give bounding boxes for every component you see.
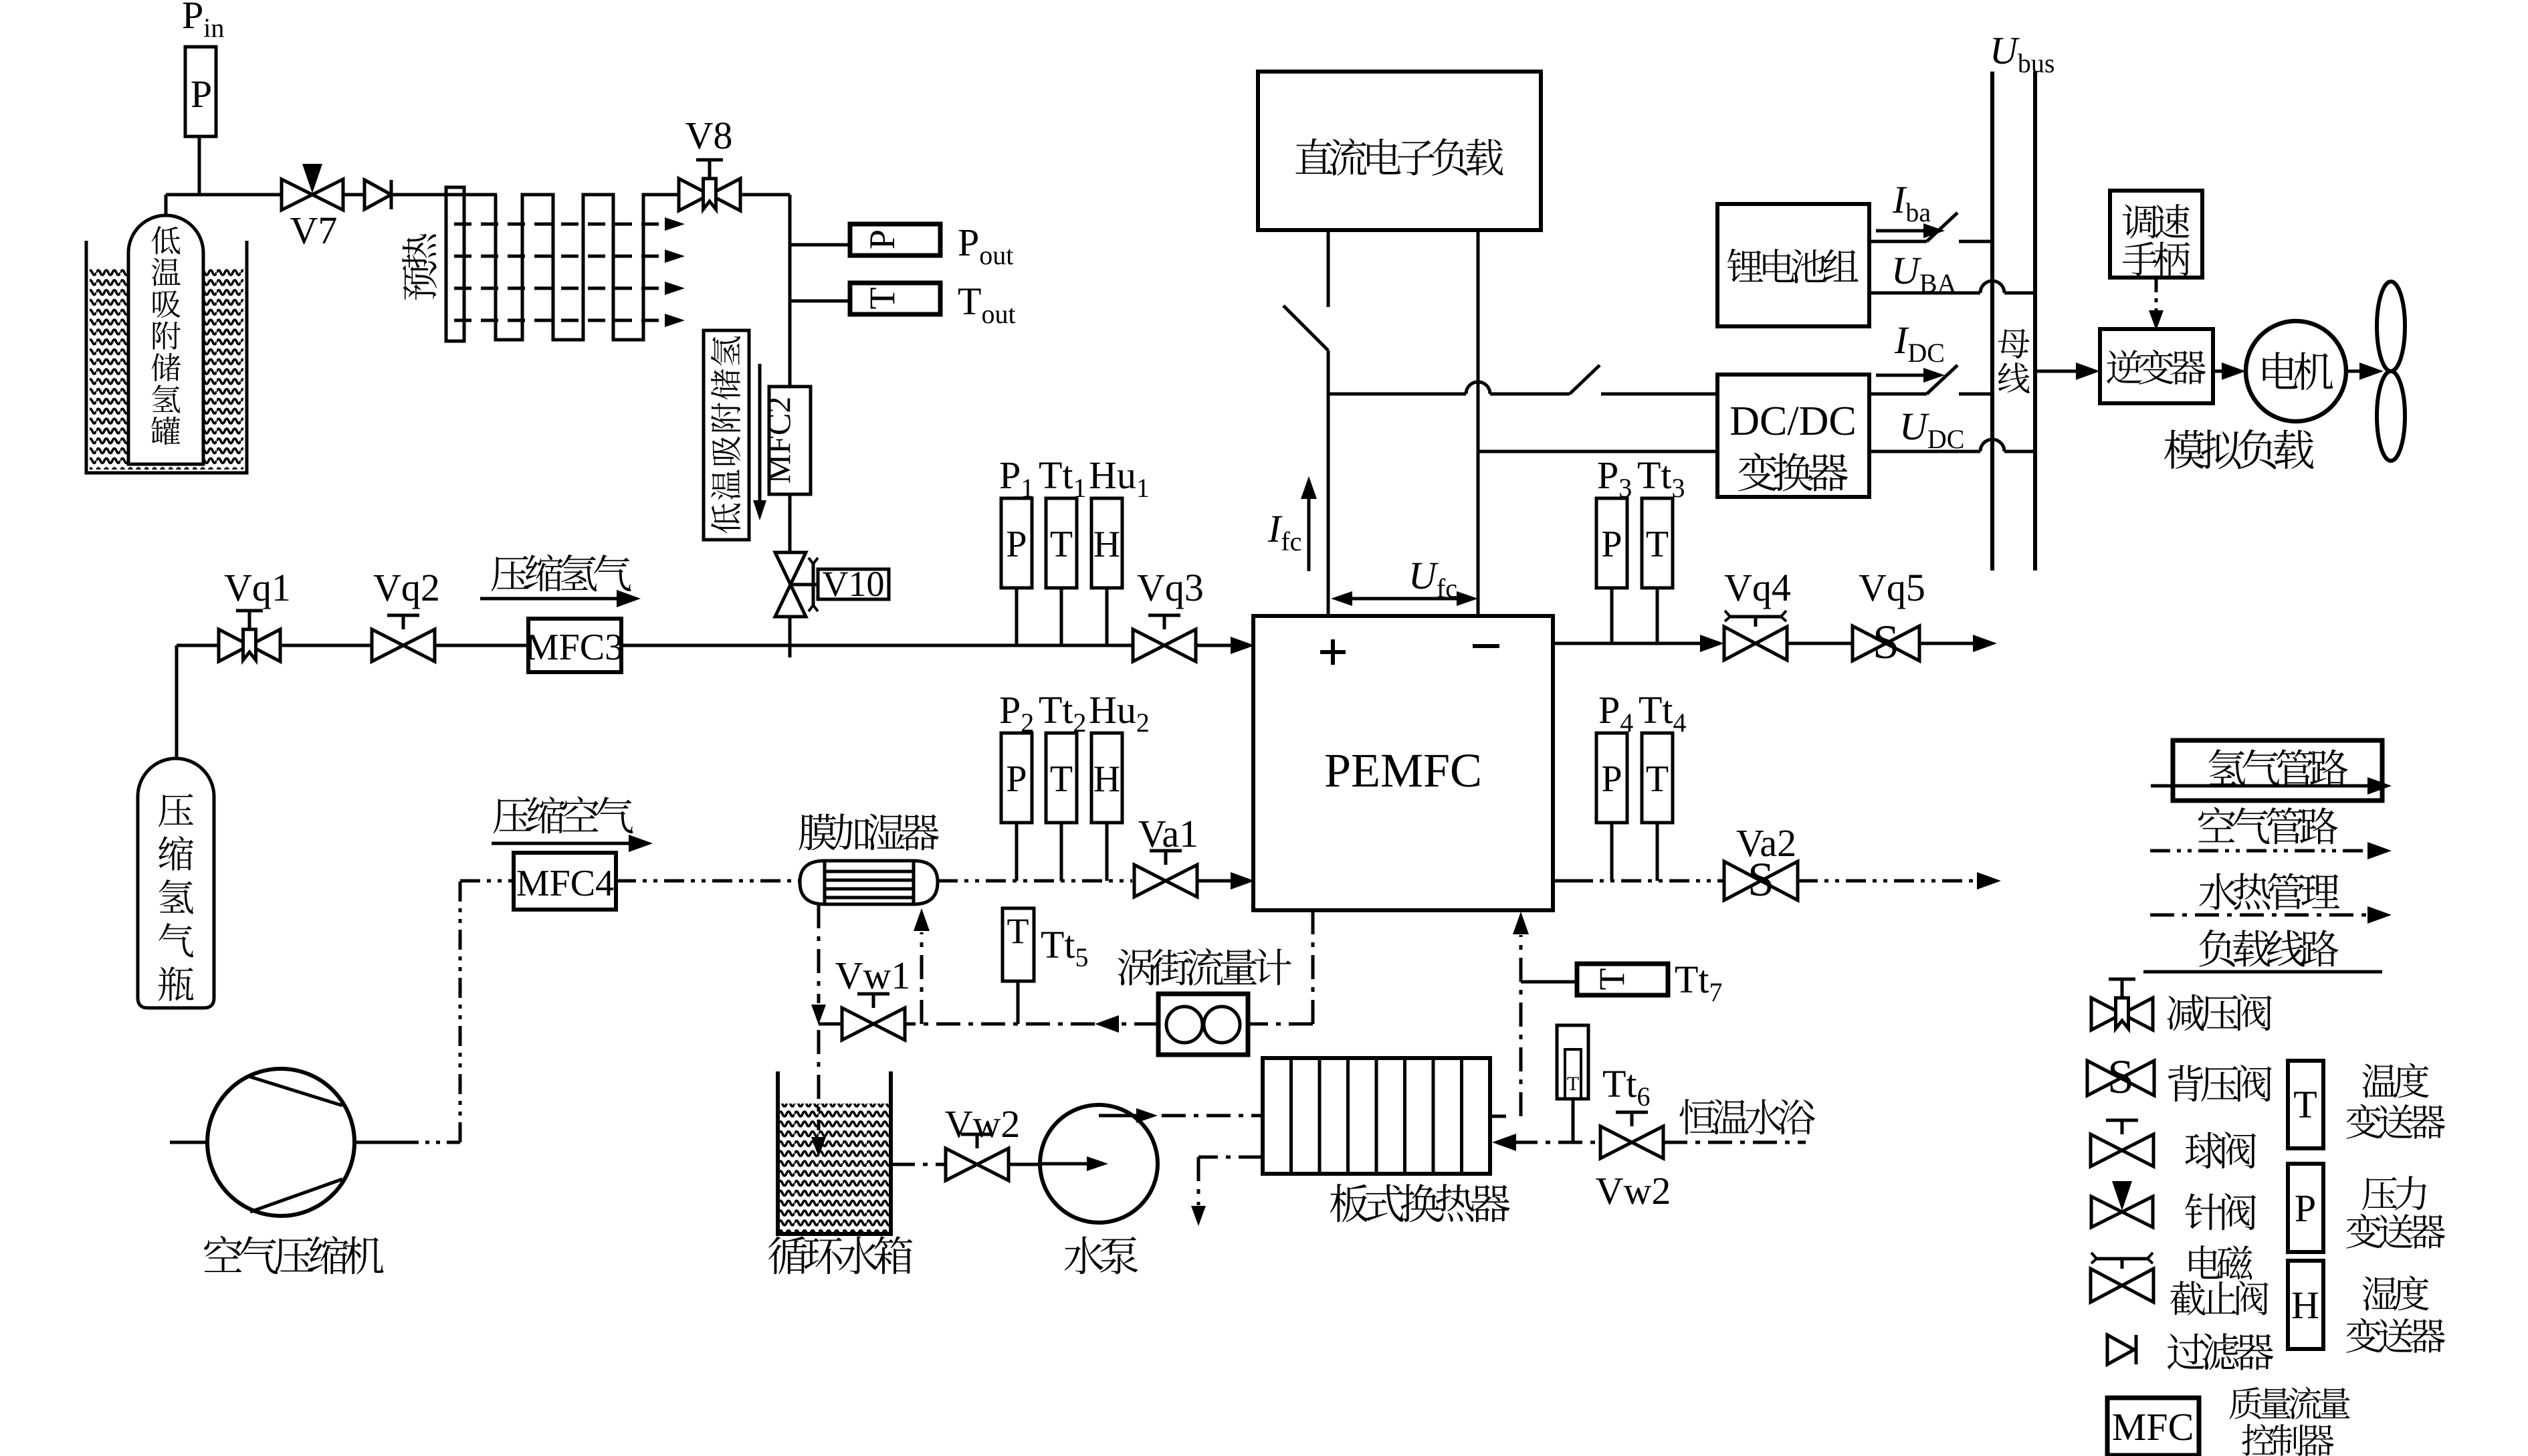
- sensor P3: [1596, 498, 1627, 588]
- valve Vq4 solenoid: [1724, 611, 1787, 660]
- valve Vq5 backpressure: [1853, 615, 1919, 669]
- wire DC load right lead: [1477, 230, 1480, 616]
- label V7: [290, 209, 338, 252]
- valve V7 needle: [282, 164, 343, 210]
- label plate HX: [1330, 1184, 1510, 1222]
- valve V10 solenoid: [775, 552, 818, 617]
- legend water line: [2150, 906, 2392, 924]
- wire Vq2-MFC3: [434, 644, 528, 647]
- label Tt6: [1602, 1062, 1651, 1112]
- wire V8 right: [740, 195, 790, 387]
- preheater coil: [496, 195, 678, 340]
- sensor Tout: [850, 283, 940, 314]
- wire tank to Vw2: [891, 1163, 946, 1166]
- wire flowmeter to Vw1: [905, 1015, 1158, 1033]
- wire left lead down: [1327, 350, 1330, 616]
- sensor Hu2: [1091, 733, 1122, 823]
- wire MFC3-Vq3: [621, 644, 1134, 647]
- svg-text:P: P: [1601, 758, 1622, 800]
- svg-text:Vq4: Vq4: [1724, 566, 1791, 609]
- controller MFC2: [760, 387, 811, 494]
- wire battery return: [1869, 281, 2035, 293]
- pressure sensor Pin: [185, 47, 216, 136]
- wire bus link: [1328, 382, 1570, 394]
- svg-text:V10: V10: [823, 564, 885, 604]
- label simulated load: [2164, 429, 2313, 470]
- bus bar left: [1990, 72, 1994, 570]
- svg-text:Vq2: Vq2: [373, 566, 440, 609]
- wire Kba to bus: [1959, 240, 1992, 243]
- wire bus to inverter: [2035, 362, 2100, 380]
- label Vq4: [1724, 566, 1791, 609]
- svg-text:P: P: [191, 72, 212, 116]
- label thermostat bath: [1680, 1099, 1816, 1134]
- hydrogen cylinder: [138, 758, 214, 1008]
- wire DCDC return: [1869, 439, 2035, 451]
- sensor P4: [1596, 733, 1627, 823]
- wire Tt6 stem: [1572, 1099, 1575, 1142]
- switch K1: [1283, 306, 1328, 350]
- legend P sensor: [2288, 1164, 2323, 1252]
- wire Hu2 stem: [1105, 823, 1109, 881]
- wire Vq4-Vq5: [1787, 642, 1853, 645]
- label Vq5: [1859, 566, 1925, 609]
- label Vw1: [835, 954, 911, 997]
- svg-text:T: T: [1567, 1073, 1579, 1095]
- vortex flowmeter: [1158, 994, 1248, 1055]
- label cryo-adsorption storage: [704, 330, 749, 540]
- sensor Pout: [850, 224, 940, 255]
- wire Va1 to PEMFC: [1197, 872, 1255, 890]
- svg-text:PEMFC: PEMFC: [1324, 744, 1482, 797]
- wire P2 stem: [1015, 823, 1019, 881]
- water bath: [86, 241, 247, 473]
- svg-text:P: P: [1006, 524, 1027, 565]
- flow arrow down: [753, 364, 766, 520]
- legend filter: [2107, 1335, 2136, 1364]
- sensor Tt4: [1642, 733, 1673, 823]
- svg-text:T: T: [1592, 968, 1632, 991]
- propeller: [2377, 282, 2405, 461]
- label MFC: [2230, 1387, 2350, 1456]
- valve Va1 ball: [1134, 851, 1197, 897]
- label UDC: [1899, 405, 1964, 454]
- wire Tt3 stem: [1656, 588, 1659, 643]
- svg-text:H: H: [1093, 524, 1120, 565]
- wire Hu1 stem: [1105, 588, 1109, 645]
- label Iba: [1892, 178, 1931, 227]
- wire compressor inlet: [170, 1141, 207, 1144]
- wire DC load left lead: [1327, 230, 1330, 307]
- svg-text:Va1: Va1: [1138, 812, 1198, 855]
- valve Vw2b ball: [1600, 1112, 1663, 1158]
- svg-text:P: P: [1006, 758, 1027, 800]
- label water pump: [1065, 1237, 1138, 1275]
- motor M: [2246, 321, 2346, 421]
- label Ubus: [1990, 29, 2055, 78]
- preheat flow arrow 2: [454, 249, 685, 263]
- label busbar: [1998, 329, 2030, 393]
- label filter: [2168, 1333, 2274, 1370]
- svg-text:DC/DC: DC/DC: [1729, 399, 1856, 444]
- label ball valve: [2185, 1132, 2256, 1168]
- preheat flow arrow 4: [454, 314, 685, 327]
- svg-text:V7: V7: [290, 209, 338, 252]
- wire Vq3 to PEMFC: [1195, 637, 1255, 654]
- svg-text:Vw1: Vw1: [835, 954, 911, 997]
- sensor Tt2: [1046, 733, 1077, 823]
- svg-text:T: T: [1050, 758, 1073, 800]
- switch Kba: [1927, 213, 1958, 241]
- wire P1 stem: [1015, 588, 1019, 645]
- legend reducing valve: [2091, 979, 2153, 1030]
- water pump: [1040, 1105, 1158, 1223]
- controller MFC3: [526, 619, 623, 672]
- wire air vent: [1798, 872, 2001, 890]
- svg-text:H: H: [1093, 758, 1120, 800]
- wire DCDC out: [1869, 393, 1927, 396]
- valve Vq1 reducing: [219, 611, 280, 661]
- legend load line: [2143, 970, 2382, 974]
- label Tt4: [1639, 688, 1687, 738]
- wire Tt1 stem: [1060, 588, 1063, 645]
- filter F1: [364, 180, 391, 209]
- label P3: [1597, 453, 1632, 503]
- fuel cell PEMFC: [1253, 616, 1553, 910]
- wire Vq1-Vq2: [280, 644, 373, 647]
- wire Vw2 to pump: [1009, 1163, 1041, 1166]
- current arrow IDC: [1876, 368, 1945, 383]
- svg-text:T: T: [862, 288, 902, 310]
- legend load line label: [2199, 930, 2339, 967]
- circulating tank: [778, 1071, 891, 1234]
- legend needle valve: [2091, 1181, 2153, 1227]
- legend air line label: [2198, 807, 2338, 845]
- label circulating tank: [768, 1236, 912, 1274]
- svg-text:T: T: [2293, 1083, 2317, 1126]
- svg-text:Vw2: Vw2: [1596, 1169, 1671, 1213]
- label T sensor: [2346, 1063, 2445, 1139]
- label air compressor: [204, 1236, 383, 1275]
- legend H sensor: [2288, 1261, 2323, 1349]
- sensor Tt3: [1642, 498, 1673, 588]
- terminal minus: [1473, 644, 1499, 648]
- svg-text:T: T: [1646, 758, 1669, 800]
- switch Kdc: [1927, 365, 1958, 394]
- label V8: [686, 114, 733, 157]
- svg-text:Vq5: Vq5: [1859, 566, 1925, 609]
- valve Vq2 ball: [372, 615, 435, 661]
- HX drain: [1191, 1157, 1263, 1226]
- legend hydrogen line: [2151, 777, 2392, 795]
- humidifier drain line: [811, 904, 826, 1157]
- label compressed air: [492, 797, 653, 852]
- wire Pout stub: [790, 243, 850, 247]
- wire V7 to filter: [343, 193, 364, 197]
- wire motor to prop: [2346, 362, 2384, 380]
- wire P3 stem: [1610, 588, 1614, 643]
- label backpressure valve: [2168, 1065, 2272, 1102]
- label Hu2: [1089, 688, 1150, 738]
- wire cylinder riser: [175, 645, 179, 760]
- label Va1: [1138, 812, 1198, 855]
- label compressed hydrogen: [480, 554, 641, 607]
- wire MFC4 to humidifier: [616, 879, 800, 883]
- svg-text:T: T: [1646, 524, 1669, 565]
- valve Vw2 ball: [946, 1134, 1009, 1180]
- wire battery out: [1869, 240, 1927, 243]
- valve V8 reducing: [679, 160, 740, 211]
- wire Kdc to bus: [1959, 393, 1992, 396]
- label Tt7: [1675, 958, 1723, 1007]
- sensor Tt7: [1577, 964, 1668, 995]
- label H sensor: [2346, 1276, 2445, 1353]
- wire humidifier to Va1: [938, 879, 1132, 883]
- sensor Tt6: [1557, 1025, 1588, 1099]
- pressure sensor Pin label: [182, 0, 224, 43]
- svg-text:P: P: [2295, 1186, 2316, 1230]
- wire to DCDC bottom: [1478, 450, 1717, 453]
- legend ball valve: [2091, 1120, 2153, 1166]
- wire P4 stem: [1610, 823, 1614, 881]
- legend T sensor: [2288, 1061, 2323, 1148]
- wire H2 vent: [1919, 635, 1997, 652]
- wire compressor out: [354, 1141, 460, 1144]
- humidifier feed line: [914, 908, 930, 1024]
- switch K2: [1570, 365, 1600, 394]
- sensor P1: [1001, 498, 1032, 588]
- label P sensor: [2346, 1176, 2445, 1249]
- wire Tt2 stem: [1060, 823, 1063, 881]
- wire PEMFC coolant out: [1248, 910, 1313, 1024]
- wire Tout stub: [790, 300, 850, 303]
- label P1: [999, 453, 1034, 503]
- svg-text:Vw2: Vw2: [945, 1102, 1021, 1146]
- hydrogen storage tank: [128, 215, 203, 464]
- throttle handle box: [2110, 191, 2202, 278]
- label reducing valve: [2168, 994, 2272, 1031]
- preheat flow arrow 3: [454, 282, 685, 295]
- svg-text:V8: V8: [686, 114, 733, 157]
- sensor Tt5: [1003, 908, 1034, 981]
- label Tout: [958, 280, 1016, 329]
- label Pout: [958, 221, 1013, 270]
- wire MFC2 to V10: [788, 494, 792, 552]
- wire PEMFC H2 out: [1553, 635, 1724, 652]
- battery pack: [1717, 204, 1869, 326]
- wire tank to V7: [166, 193, 282, 197]
- label vortex flowmeter: [1118, 948, 1291, 986]
- controller MFC4: [514, 853, 616, 910]
- wire PEMFC air out: [1553, 879, 1724, 883]
- wire to DCDC top: [1601, 393, 1717, 396]
- label Vq3: [1137, 566, 1204, 609]
- bus bar right: [2033, 72, 2037, 570]
- label Ifc: [1267, 476, 1317, 571]
- sensor Tt1: [1046, 498, 1077, 588]
- terminal plus: [1320, 639, 1346, 665]
- label Tt2: [1039, 688, 1087, 738]
- legend backpressure valve: [2087, 1050, 2154, 1104]
- wire tank riser: [165, 195, 168, 219]
- label Tt1: [1039, 453, 1087, 503]
- svg-text:Vq1: Vq1: [224, 566, 291, 609]
- legend solenoid valve: [2091, 1253, 2153, 1302]
- label Hu1: [1089, 453, 1150, 503]
- valve Vq3 ball: [1133, 615, 1196, 661]
- legend air line: [2150, 842, 2392, 859]
- label UBA: [1891, 249, 1957, 298]
- inverter box: [2100, 329, 2213, 403]
- legend water line label: [2199, 873, 2339, 910]
- label needle valve: [2185, 1193, 2256, 1230]
- current arrow Iba: [1876, 223, 1945, 238]
- valve Vw1 ball: [842, 994, 905, 1040]
- label V10: [818, 564, 889, 604]
- plate heat exchanger: [1263, 1058, 1490, 1174]
- sensor Hu1: [1091, 498, 1122, 588]
- converter DCDC: [1717, 375, 1869, 497]
- label P2: [999, 688, 1034, 738]
- air riser: [460, 881, 514, 1142]
- label Vq2: [373, 566, 440, 609]
- valve Va2 backpressure: [1724, 853, 1798, 906]
- wire Tt5 stem: [1017, 981, 1020, 1024]
- label IDC: [1894, 318, 1945, 368]
- control line: [2149, 278, 2164, 330]
- label humidifier: [799, 814, 939, 851]
- wire filter to coil: [391, 193, 497, 197]
- preheater header: [446, 187, 464, 341]
- svg-text:Vq3: Vq3: [1137, 566, 1204, 609]
- label Vq1: [224, 566, 291, 609]
- DC electronic load: [1258, 72, 1541, 230]
- svg-text:MFC2: MFC2: [760, 397, 797, 484]
- svg-text:S: S: [2107, 1050, 2134, 1104]
- label solenoid valve: [2170, 1245, 2268, 1315]
- label P4: [1598, 688, 1633, 738]
- wire main H2 line 1: [177, 644, 219, 647]
- svg-text:S: S: [1873, 615, 1899, 669]
- svg-text:Va2: Va2: [1736, 821, 1796, 865]
- wire Tt4 stem: [1656, 823, 1659, 881]
- svg-text:T: T: [1007, 911, 1029, 951]
- svg-text:T: T: [1050, 524, 1073, 565]
- legend MFC: [2107, 1398, 2199, 1455]
- label preheat: [402, 234, 437, 300]
- legend hydrogen line box: [2173, 740, 2382, 801]
- svg-text:MFC4: MFC4: [516, 863, 614, 904]
- wire HX to PEMFC: [1490, 912, 1529, 1116]
- preheat flow arrow 1: [454, 217, 685, 231]
- label Vw2b: [1596, 1169, 1671, 1213]
- svg-text:H: H: [2291, 1283, 2319, 1327]
- label Ufc: [1331, 554, 1478, 606]
- air compressor: [207, 1069, 354, 1216]
- sensor P2: [1001, 733, 1032, 823]
- svg-text:MFC: MFC: [2112, 1405, 2194, 1449]
- svg-text:P: P: [1601, 524, 1622, 565]
- wire inverter to motor: [2213, 362, 2246, 380]
- svg-text:MFC3: MFC3: [526, 627, 623, 668]
- label Tt5: [1041, 923, 1089, 972]
- wire Vw1 left: [819, 1023, 842, 1026]
- label Vw2: [945, 1102, 1021, 1146]
- wire bath to HX: [1492, 1134, 1600, 1151]
- wire Tt7 stub: [1521, 980, 1577, 984]
- membrane humidifier: [800, 861, 938, 904]
- wire V10 to main line: [788, 617, 792, 657]
- wire bath line: [1663, 1141, 1806, 1144]
- svg-text:P: P: [862, 229, 902, 249]
- wire Pin stem: [198, 136, 201, 195]
- label Tt3: [1637, 453, 1685, 503]
- wire pump out: [1099, 1108, 1263, 1123]
- label Va2: [1736, 821, 1796, 865]
